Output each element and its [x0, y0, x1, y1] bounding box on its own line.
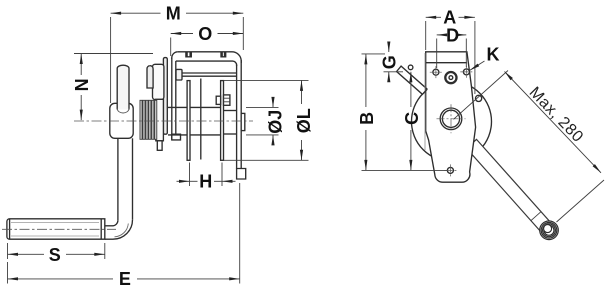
- frame left side plate: [172, 58, 181, 140]
- dimension H: [177, 163, 236, 192]
- svg-text:O: O: [198, 24, 212, 44]
- label K with leader: [470, 44, 500, 70]
- main plate front view: [426, 52, 476, 182]
- brake tab base over plate edge: [426, 88, 428, 89]
- fold pin circle: [476, 95, 482, 101]
- dimension D: [437, 25, 467, 68]
- dimension M: [111, 4, 244, 103]
- centerline grip: [2, 228, 116, 230]
- dimension N: [72, 54, 153, 121]
- brake tab upper left: [397, 65, 428, 94]
- hole left top: [430, 66, 442, 78]
- dimension A: [426, 8, 475, 94]
- axle hole front view: [437, 104, 466, 133]
- svg-text:C: C: [402, 112, 422, 125]
- pawl lower stub: [157, 141, 162, 151]
- centerline axle left view: [74, 120, 253, 122]
- ratchet gear disc: [163, 58, 167, 135]
- svg-text:N: N: [72, 78, 92, 91]
- crank tube vertical: [118, 138, 133, 220]
- drum barrel: [168, 107, 223, 134]
- svg-text:E: E: [119, 269, 131, 289]
- svg-text:G: G: [380, 55, 400, 69]
- svg-text:D: D: [446, 25, 459, 45]
- svg-text:M: M: [166, 4, 181, 24]
- handle knob end: [540, 221, 559, 240]
- svg-text:ØL: ØL: [294, 108, 314, 133]
- dimension E: [8, 183, 240, 289]
- frame top plate: [172, 52, 241, 66]
- svg-text:ØJ: ØJ: [266, 110, 286, 134]
- ratchet spring coil: [140, 100, 157, 140]
- crank elbow: [113, 220, 133, 240]
- drum mid line: [200, 79, 202, 160]
- pawl pivot rod: [182, 73, 237, 76]
- plate left edge inner line: [424, 53, 426, 150]
- grommet center top: [445, 72, 456, 83]
- pawl pivot bolt head: [176, 69, 182, 80]
- frame right side plate: [237, 60, 246, 179]
- dimension L: [224, 80, 315, 160]
- svg-text:Max, 280: Max, 280: [526, 84, 587, 146]
- frame top plate slot tabs right: [221, 52, 226, 57]
- dimension Max 280: [454, 71, 605, 223]
- crank grip: [7, 219, 105, 239]
- handle lock pin: [117, 65, 129, 113]
- dimension O: [171, 24, 244, 56]
- svg-text:H: H: [199, 172, 212, 192]
- plate bend line: [426, 62, 467, 64]
- axle end cap outside plate: [241, 113, 245, 130]
- drum flange right: [221, 81, 224, 161]
- axle block between flange and plate: [224, 111, 237, 135]
- dimension G: [380, 42, 404, 83]
- rope clamp bolt on right flange: [216, 95, 230, 105]
- gear circle front view: [412, 82, 492, 162]
- crank hub block: [110, 103, 133, 138]
- foot hole front view: [444, 164, 456, 176]
- crank arm tube front view: [467, 139, 555, 235]
- dimension C: [402, 72, 422, 171]
- hole right top (K): [460, 66, 472, 78]
- pawl strip: [156, 99, 164, 141]
- crank neck: [105, 226, 113, 239]
- pawl knob: [147, 66, 153, 88]
- frame top plate slot tabs left: [186, 52, 191, 57]
- svg-text:K: K: [487, 44, 500, 64]
- drum flange left: [187, 81, 190, 161]
- svg-text:S: S: [49, 245, 61, 265]
- pawl plate: [153, 64, 164, 99]
- svg-text:B: B: [357, 112, 377, 125]
- dimension S: [8, 243, 105, 265]
- dimension B: [357, 54, 447, 170]
- dimension J: [246, 97, 286, 145]
